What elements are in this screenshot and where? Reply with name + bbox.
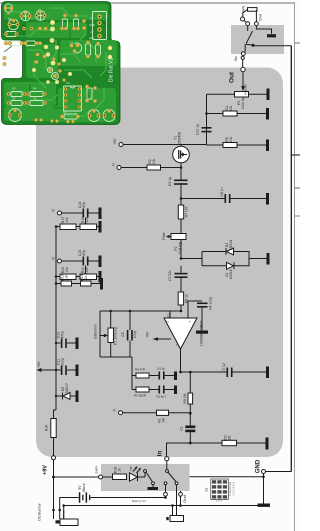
svg-text:100p: 100p [133, 331, 137, 339]
terminal below switch 2 [241, 56, 244, 67]
wire GND loop [264, 472, 292, 504]
ground (C8) [266, 193, 269, 205]
terminal tone 2 [58, 259, 62, 263]
ground (C14) [99, 208, 102, 220]
capacitor C6 [149, 386, 174, 394]
svg-text:P1: P1 [24, 10, 28, 14]
ground (diodes) [267, 253, 270, 265]
terminal +9V (box edge) [52, 456, 56, 460]
wire ground rail bottom [64, 506, 258, 520]
resistor R9 [188, 393, 193, 404]
svg-text:C8 1n: C8 1n [220, 187, 224, 196]
svg-text:47p: 47p [82, 202, 86, 208]
page border tick [295, 42, 301, 44]
svg-text:1M: 1M [162, 418, 166, 423]
svg-text:C5 4μ7: C5 4μ7 [156, 395, 166, 399]
svg-text:R16: R16 [45, 425, 49, 431]
terminal Gnd (bypass) [179, 491, 183, 507]
jack output [166, 504, 183, 521]
terminal below switch 1 [241, 52, 245, 56]
svg-text:C5: C5 [12, 97, 16, 101]
silkscreen corner pot [4, 4, 12, 12]
svg-text:10k: 10k [65, 217, 69, 223]
node R11 row [205, 112, 208, 115]
resistor R1 [157, 410, 169, 415]
PCB silkscreen [4, 4, 115, 122]
svg-text:SW1: SW1 [242, 5, 246, 12]
table S1 lug diagram [211, 479, 229, 500]
wire LED feed row [54, 476, 99, 478]
ground (R6) [266, 140, 269, 152]
wire output row [181, 371, 267, 373]
node gain rail at R8 [180, 310, 183, 313]
node C9 top [129, 310, 132, 313]
svg-text:D1: D1 [63, 110, 67, 114]
wire battery row [60, 498, 79, 511]
ground (C12) [76, 338, 79, 350]
svg-text:GND: GND [89, 23, 95, 27]
resistor R12 [56, 274, 76, 280]
svg-text:+9V: +9V [43, 465, 49, 475]
silkscreen connector box [93, 12, 107, 40]
terminal SW1 [241, 17, 245, 21]
svg-text:C3 1μ: C3 1μ [168, 177, 172, 186]
node input junction [189, 412, 192, 415]
wire R9 to node [189, 404, 191, 426]
svg-text:P3: P3 [8, 17, 12, 21]
node output branch [189, 371, 192, 374]
resistor R5 [132, 387, 149, 392]
wire battery to switch [91, 496, 167, 499]
wire C8 row [181, 198, 266, 200]
resistor R15 [76, 224, 99, 230]
svg-text:C4 100p: C4 100p [209, 297, 213, 310]
switch SW1 lever [245, 31, 252, 52]
terminal GND (right) [262, 470, 266, 474]
capacitor C10 (on vertical) [202, 127, 212, 132]
capacitor C comp [197, 303, 208, 331]
svg-text:C9: C9 [121, 332, 125, 336]
potentiometer P3 volume [235, 92, 249, 98]
svg-text:S1: S1 [205, 487, 209, 491]
svg-text:LM308N/OP07: LM308N/OP07 [200, 320, 204, 345]
silkscreen resistor outlines [6, 32, 16, 37]
svg-text:+9V: +9V [37, 361, 41, 368]
svg-text:GND: GND [256, 459, 262, 473]
wire op-amp comp pin loop [188, 301, 202, 318]
PCB tiny silkscreen labels [8, 8, 95, 114]
wire Q1 top row [123, 144, 207, 146]
silkscreen IC1 DIP8 [64, 86, 82, 111]
capacitor C5 [149, 372, 174, 380]
wire R2 to Q1 source node [161, 167, 182, 169]
terminal In [165, 457, 169, 461]
ground (D3) [76, 391, 79, 403]
wire R7 to P2 [180, 219, 182, 234]
PCB photo (Die Rat V2 board) [2, 2, 121, 125]
svg-text:10k: 10k [85, 267, 89, 273]
wire node to R7 [180, 199, 182, 206]
op-amp IC1 [164, 318, 197, 349]
bypass/LED panel (bottom) [101, 464, 190, 491]
wire vertical P3 to R11 row [206, 94, 208, 145]
wire C3 down to node [180, 185, 182, 199]
wire SW1 resistor to terminals [243, 9, 257, 21]
page border top [0, 2, 295, 4]
wire lever B contacts down [166, 485, 177, 516]
node bias row [55, 282, 58, 285]
wire terminal to R2 [121, 167, 147, 169]
svg-text:Gnd: Gnd [182, 495, 187, 503]
ground (volume) [267, 89, 270, 101]
resistor R10 [76, 274, 99, 280]
wire distortion leg [99, 311, 101, 357]
main schematic panel [36, 68, 283, 458]
svg-text:1k: 1k [118, 468, 122, 472]
svg-text:Bd: Bd [234, 56, 238, 60]
wire switch output to right rail [253, 45, 291, 47]
ground (switch panel) [267, 34, 276, 37]
wire bypass panel to GND [190, 476, 265, 479]
potentiometer P1 distortion [100, 311, 114, 357]
svg-text:C1: C1 [180, 426, 184, 430]
diode D3 [55, 393, 76, 400]
svg-text:C10 1μ: C10 1μ [196, 124, 200, 135]
svg-text:R4 47R: R4 47R [135, 368, 146, 372]
capacitor C13 [185, 426, 195, 433]
jack DC power [54, 510, 79, 526]
resistor R6 [223, 143, 237, 148]
svg-text:2N5458: 2N5458 [178, 132, 182, 144]
svg-text:+9V: +9V [113, 138, 117, 145]
terminal Led+ [99, 475, 103, 479]
svg-text:Out: Out [229, 71, 236, 83]
svg-text:Led+: Led+ [95, 466, 99, 474]
svg-text:C7 22n: C7 22n [168, 270, 172, 281]
switch lever B [164, 470, 178, 485]
resistor R19 [222, 440, 237, 445]
ground (R10) [99, 271, 102, 283]
resistor SW1 pulldown [248, 8, 258, 12]
svg-text:LED: LED [89, 36, 94, 40]
svg-text:R8 1k: R8 1k [185, 294, 189, 303]
svg-text:1M: 1M [228, 435, 232, 440]
node In row [189, 442, 192, 445]
svg-text:R9 1M: R9 1M [183, 393, 187, 403]
capacitor C10out [227, 368, 233, 378]
ground (C6) [174, 386, 177, 395]
svg-text:100μ: 100μ [61, 358, 65, 366]
page border tick y155 [291, 154, 300, 156]
terminal Out [241, 67, 245, 71]
svg-text:1 2 3 4 5 6: 1 2 3 4 5 6 [232, 482, 236, 496]
silkscreen big pot top-left [8, 19, 18, 29]
capacitor C9 [127, 311, 133, 357]
wire link C15 to R row [84, 266, 86, 276]
switch S1 LED section [103, 476, 127, 478]
svg-text:Filter: Filter [162, 231, 166, 239]
wire P3 left lead [207, 93, 235, 95]
node output [179, 371, 182, 374]
capacitor C8 [225, 194, 231, 203]
power arrow +9V left [37, 368, 58, 372]
wire P2 down [180, 240, 182, 259]
svg-text:47p: 47p [82, 250, 86, 256]
ground (In row) [266, 438, 269, 450]
capacitor C7 [175, 266, 188, 292]
svg-text:P2: P2 [38, 8, 42, 12]
wire link C14 to R row [84, 218, 86, 226]
svg-text:10k: 10k [152, 158, 156, 164]
switch lever A [144, 470, 155, 487]
resistor R18 [113, 474, 127, 480]
svg-text:10k: 10k [65, 274, 69, 280]
ground (main GND) [258, 504, 271, 507]
PCB bright solder blobs [32, 20, 112, 84]
terminal Gnd (top) [255, 22, 259, 26]
wire gain network bottom rail [100, 357, 132, 390]
node diode loop left [180, 257, 183, 260]
svg-text:rot: rot [129, 466, 133, 470]
svg-text:10k: 10k [65, 267, 69, 273]
terminal bypass out [164, 492, 168, 496]
svg-text:In: In [157, 451, 164, 457]
resistor R11 [223, 111, 237, 116]
resistor R8 [178, 292, 183, 311]
svg-text:P1 100k log: P1 100k log [114, 327, 118, 345]
svg-text:1 2 3: 1 2 3 [216, 499, 223, 503]
capacitor C15 [62, 257, 99, 266]
node spine top [55, 225, 58, 228]
ground (R15) [99, 221, 102, 233]
terminal +9V (Q1 drain) [119, 143, 123, 147]
wire gain rail [100, 310, 181, 312]
wire diode loop [181, 252, 267, 266]
node Q1 source [180, 166, 183, 169]
wire op-amp output [180, 349, 182, 372]
battery BT1 [79, 492, 91, 502]
svg-text:C2 1μ: C2 1μ [222, 363, 226, 372]
svg-text:470p: 470p [61, 331, 65, 339]
ground (comp cap) [196, 331, 208, 334]
PCB lighter copper-pour regions [4, 4, 117, 122]
diode D1 [227, 262, 235, 269]
PCB pad holes [5, 15, 114, 116]
svg-text:DC-Buchse: DC-Buchse [38, 503, 42, 520]
potentiometer P2 filter [167, 234, 187, 240]
resistor R13 [56, 281, 72, 286]
terminal input buffer [117, 166, 121, 170]
capacitor C14 [62, 209, 99, 218]
node DC pins [52, 504, 65, 511]
page border right [294, 3, 296, 531]
ground (LED switch) [148, 487, 159, 490]
wire input feed row [123, 412, 191, 414]
svg-text:In: In [113, 408, 117, 411]
node P1 top [109, 310, 112, 313]
svg-text:10k: 10k [229, 136, 233, 142]
ground (R11) [266, 108, 269, 120]
silkscreen pot bottom-left [9, 109, 22, 122]
svg-text:100k log: 100k log [178, 242, 182, 255]
resistor R14 [72, 281, 101, 286]
PCB traces [8, 8, 106, 116]
wire op-amp V+ [153, 337, 172, 341]
wire Gnd branch to ground [256, 26, 271, 34]
svg-text:Block: Block [82, 483, 86, 492]
svg-text:Gnd: Gnd [259, 14, 263, 21]
svg-text:Distortion: Distortion [94, 324, 98, 338]
svg-text:10k: 10k [229, 105, 233, 111]
svg-text:1N914: 1N914 [229, 240, 233, 250]
text labels (rotated) [37, 5, 263, 520]
wire op-amp inverting input [169, 311, 171, 318]
transistor Q1 [173, 145, 190, 168]
svg-text:R5 560R: R5 560R [134, 394, 147, 398]
ground (C5) [174, 372, 177, 381]
svg-text:+V: +V [90, 30, 94, 34]
wire left spine [54, 227, 57, 419]
wire right rail down [290, 46, 292, 472]
switch panel (top right) [231, 25, 284, 54]
svg-text:100k log: 100k log [241, 96, 245, 109]
resistor R16 [51, 419, 56, 463]
capacitor C3 [174, 180, 188, 185]
ground (C11) [76, 365, 79, 377]
node spine tone2 [55, 275, 58, 278]
svg-text:R3: R3 [12, 87, 16, 91]
wire P3 right lead [249, 93, 267, 95]
svg-text:R7 1k5: R7 1k5 [185, 207, 189, 218]
svg-text:1k: 1k [84, 275, 88, 279]
svg-text:Battery 9V: Battery 9V [132, 499, 146, 503]
wire C13 to In row [189, 432, 191, 443]
resistor R4 [132, 373, 149, 378]
silkscreen transistor [75, 43, 82, 53]
resistor R17 [56, 224, 76, 230]
PCB pads [3, 6, 116, 123]
capacitor C12 [55, 339, 76, 349]
svg-text:volume: volume [244, 84, 248, 95]
capacitor C11 [56, 366, 76, 376]
wire switch common [247, 26, 249, 31]
wire Q1 source down [180, 168, 182, 180]
svg-text:1N4007: 1N4007 [65, 383, 69, 395]
wire Q1 row to R6 [207, 144, 267, 146]
svg-text:R4: R4 [33, 87, 37, 91]
node LED feed [52, 476, 55, 479]
resistor R2 [147, 165, 161, 170]
resistor R7 [178, 205, 183, 219]
terminal tone 1 [58, 211, 62, 215]
wire R11 row [207, 113, 267, 115]
ground (bias row) [100, 278, 103, 290]
svg-text:+9V: +9V [146, 331, 150, 338]
silkscreen trimpot 1 [21, 11, 31, 21]
ground (C15) [99, 256, 102, 268]
wire LED to lever A [138, 473, 146, 478]
diode D2 [226, 248, 234, 255]
LED D4 [130, 466, 142, 481]
silkscreen pot bottom-right 2 [103, 110, 115, 122]
node C8 row [180, 197, 183, 200]
svg-text:1N914: 1N914 [229, 269, 233, 279]
wire Out to volume pot with arrow [241, 72, 245, 92]
svg-text:IC1: IC1 [66, 81, 71, 85]
wire right rail tick 1 [295, 187, 301, 189]
svg-text:10k: 10k [85, 217, 89, 223]
wire In down to bypass switch [166, 461, 168, 470]
wire output branch down [189, 372, 191, 393]
ground (output row) [266, 367, 269, 379]
svg-text:In: In [112, 163, 116, 166]
terminal input jack feed [119, 411, 123, 415]
svg-text:Die Rat V2: Die Rat V2 [109, 58, 115, 82]
wire right rail tick 2 [295, 215, 301, 217]
svg-text:C4 1μ: C4 1μ [157, 367, 165, 371]
terminal switch B [244, 21, 250, 26]
svg-text:IC1: IC1 [167, 313, 171, 318]
wire +9V spine down [53, 460, 55, 510]
silkscreen trimpot 2 [36, 11, 46, 21]
wire In row [167, 443, 266, 458]
silkscreen pot bottom-right 1 [88, 110, 100, 122]
svg-text:IN: IN [91, 16, 94, 20]
node switch output [246, 44, 254, 47]
svg-text:C6: C6 [33, 97, 37, 101]
